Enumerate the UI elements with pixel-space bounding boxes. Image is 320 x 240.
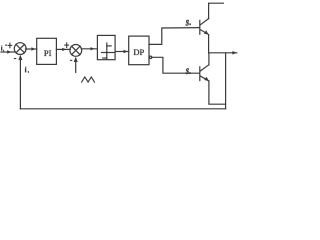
triangular carrier wave symbol — [82, 77, 95, 82]
inverter bubble on DP bottom output — [149, 56, 151, 58]
svg-text:S: S — [186, 18, 190, 27]
svg-text:S: S — [186, 67, 190, 76]
transistor Sb (bottom switch) — [200, 65, 209, 81]
minus sign at summer 1 feedback input — [14, 58, 16, 59]
wire: comparator to DP block — [115, 50, 129, 53]
wire: input into summer 1 — [1, 50, 15, 53]
transistor Sa (top switch) — [200, 19, 209, 35]
node label i_s* (reference current input) — [1, 45, 7, 52]
plus sign at summer 1 input — [8, 43, 12, 48]
label Sa — [186, 18, 191, 27]
wire: summer 2 to comparator block — [81, 47, 97, 50]
wire: Sb collector up to phase node — [208, 53, 210, 65]
wire: feedback rail along bottom — [20, 108, 225, 110]
wire: summer 1 to PI block — [26, 47, 37, 50]
DP drive-pulse block — [129, 36, 149, 65]
wire: phase node output arrow — [209, 51, 237, 55]
wire: DP top output to gate of Sa — [149, 28, 199, 45]
wire: DP bottom output to gate of Sb — [152, 57, 199, 73]
wire: feedback arrow up into summer 1 — [18, 55, 22, 109]
summing junction 2 — [70, 45, 82, 57]
plus sign at summer 2 input — [65, 43, 69, 48]
wire: carrier arrow up into summer 2 — [74, 57, 78, 73]
wire: Sb emitter to bottom corner — [209, 81, 226, 104]
wire: PI block to summer 2 — [56, 48, 70, 51]
wire: Sa collector to top rail — [209, 3, 224, 18]
svg-text:DP: DP — [133, 47, 144, 57]
node label i_s (feedback current) — [25, 67, 29, 73]
minus sign at summer 2 carrier input — [70, 60, 72, 61]
svg-text:PI: PI — [44, 48, 52, 58]
summing junction 1 — [14, 43, 26, 55]
hysteresis comparator block — [97, 35, 115, 59]
PI controller block — [37, 38, 57, 64]
wire: right return branch from node — [225, 53, 227, 109]
wire: Sa emitter down to phase node — [208, 35, 210, 53]
label Sb — [186, 67, 191, 76]
